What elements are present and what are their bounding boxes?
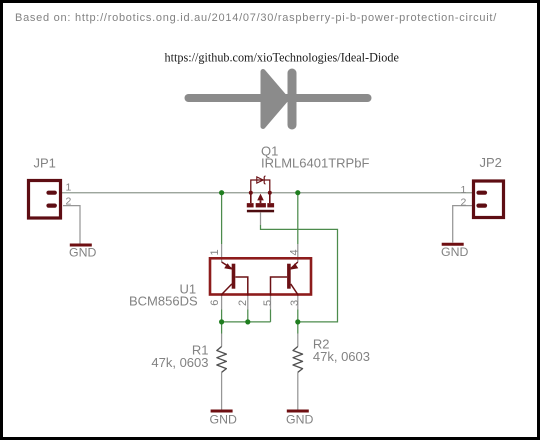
- svg-text:GND: GND: [286, 413, 313, 427]
- svg-text:6: 6: [209, 300, 221, 306]
- svg-text:BCM856DS: BCM856DS: [129, 294, 198, 309]
- svg-text:GND: GND: [441, 245, 468, 259]
- svg-text:1: 1: [209, 249, 221, 255]
- svg-text:1: 1: [461, 184, 467, 196]
- svg-text:JP1: JP1: [34, 156, 56, 171]
- svg-text:GND: GND: [69, 246, 96, 260]
- svg-text:5: 5: [262, 300, 274, 306]
- svg-text:IRLML6401TRPbF: IRLML6401TRPbF: [261, 156, 369, 171]
- svg-text:JP2: JP2: [480, 155, 502, 170]
- svg-text:47k, 0603: 47k, 0603: [151, 355, 208, 370]
- svg-text:https://github.com/xioTechnolo: https://github.com/xioTechnologies/Ideal…: [165, 51, 399, 65]
- svg-text:47k, 0603: 47k, 0603: [313, 349, 370, 364]
- svg-text:2: 2: [461, 197, 467, 209]
- svg-text:2: 2: [237, 300, 249, 306]
- svg-text:2: 2: [66, 195, 72, 207]
- svg-text:3: 3: [289, 300, 301, 306]
- svg-text:Based on: http://robotics.ong.: Based on: http://robotics.ong.id.au/2014…: [15, 12, 497, 24]
- svg-text:GND: GND: [210, 413, 237, 427]
- svg-text:1: 1: [66, 182, 72, 194]
- svg-text:4: 4: [289, 249, 301, 255]
